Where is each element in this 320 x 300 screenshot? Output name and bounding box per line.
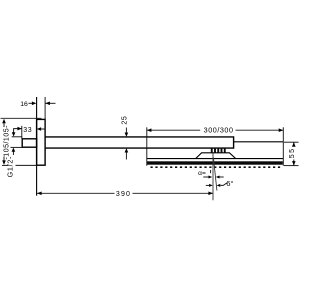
svg-text:300/300: 300/300 [204,126,234,135]
dim 16 extension right [44,97,46,119]
spray plate thick band [147,161,283,164]
dim 105/105 line [3,123,5,128]
svg-text:-105/105-: -105/105- [3,125,10,160]
dim 33 arrows [17,127,21,131]
dim 105/105 ext top [1,117,42,119]
dim 300/300 left ext [146,127,148,166]
dim 25 upper tail [125,128,127,134]
svg-text:55: 55 [289,148,296,159]
pipe stub G1/2 [22,139,36,147]
svg-text:390: 390 [116,191,131,198]
tilted 6deg line [213,158,217,191]
angle upper arrows [209,176,213,179]
dim 390 arrows [37,192,42,196]
dim 55 line bottom [293,160,295,166]
dim 25 arrows [125,133,129,137]
dim 300/300 line left [147,129,200,131]
dim G1/2 bottom tail [12,151,14,155]
dim 300/300 line right [236,129,284,131]
head top line [234,141,284,143]
wall plate (escutcheon 105/105) [37,119,46,165]
angle lower arrows [209,184,213,187]
svg-text:33: 33 [23,127,32,134]
dim 25 lower tail [125,152,127,160]
angle ref tick [210,170,212,173]
dim 390 line right [133,192,214,194]
svg-text:25: 25 [122,116,129,125]
dim 390 line left [37,192,115,194]
dim G1/2 bottom ext [11,146,23,148]
arrowheads [2,102,295,196]
dim G1/2 top ext [12,136,23,138]
dim 105/105 ext bottom [2,164,9,166]
dim 16 arrows [32,102,37,106]
G1/2 arrows [12,132,16,136]
angle arrows tails [203,176,208,178]
dim 300/300 right ext [282,127,284,166]
knurl ticks [211,148,226,153]
dim 300/300 arrows [147,128,152,132]
svg-text:G1/2-: G1/2- [6,156,15,177]
svg-text:16: 16 [20,101,28,108]
nozzle tick row [151,166,281,168]
svg-text:α=: α= [198,170,206,177]
ball joint cover trapezoid [196,153,236,159]
wall line [36,97,38,196]
dim 33 ext line [21,126,23,139]
dim 55 bottom ext [284,165,299,167]
dim 105/105 arrows [2,119,6,124]
centerline [212,153,214,201]
dim 55 arrows [292,142,296,146]
shower arm bar [45,137,234,148]
svg-text:6°: 6° [226,179,233,188]
dim 55 line top [293,142,295,146]
dim 33 right tail [41,128,46,130]
dim 55 top ext [284,141,299,143]
dim 16 tails [29,102,33,104]
head plate top line [147,158,283,160]
dim 33 leader [14,129,22,134]
